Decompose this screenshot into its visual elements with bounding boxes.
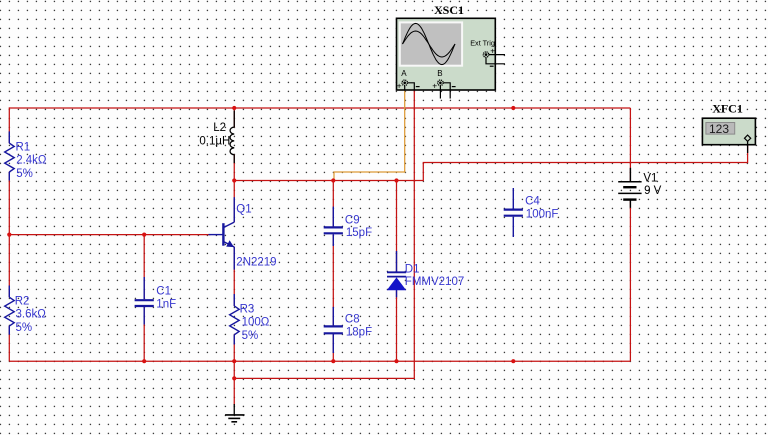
capacitor C9 (324, 207, 343, 246)
svg-text:XFC1: XFC1 (712, 102, 743, 116)
inductor L2 (230, 111, 234, 164)
svg-text:B: B (437, 69, 442, 78)
wire base rail (middle horizontal) (9, 234, 210, 236)
junction bottom rail at C1 (142, 359, 146, 363)
svg-text:C1: C1 (156, 286, 171, 298)
wire C9 C8 vertical (332, 181, 334, 362)
junction bottom rail at R3 (232, 359, 236, 363)
svg-text:+: + (432, 81, 437, 91)
wire L2 / Q1 collector vertical (233, 108, 235, 405)
capacitor C8 (324, 307, 343, 353)
capacitor C1 (135, 277, 154, 325)
transistor Q1 emitter arrow (226, 240, 234, 247)
svg-text:0.1µH: 0.1µH (199, 135, 230, 147)
wire scope A plus (orange) (334, 89, 405, 181)
wire D1 vertical (396, 181, 398, 362)
junction base rail left (7, 233, 11, 237)
svg-text:3.6kΩ: 3.6kΩ (16, 309, 47, 321)
svg-text:100nF: 100nF (526, 209, 559, 221)
svg-text:15pF: 15pF (346, 227, 372, 239)
battery V1 (618, 168, 641, 208)
varactor D1 triangle (387, 277, 406, 290)
wire scope A minus vertical (234, 88, 414, 378)
svg-text:Q1: Q1 (236, 204, 251, 216)
junction branch at L2 bottom (232, 178, 236, 182)
varactor diode D1 (387, 251, 406, 297)
svg-text:C8: C8 (345, 313, 360, 325)
svg-text:XSC1: XSC1 (434, 3, 464, 17)
wire left vertical upper (through R1 pins) (8, 107, 10, 361)
svg-text:2N2219: 2N2219 (236, 257, 276, 269)
svg-text:FMMV2107: FMMV2107 (405, 276, 464, 288)
svg-text:5%: 5% (242, 330, 259, 342)
svg-text:9 V: 9 V (644, 185, 662, 197)
svg-text:D1: D1 (405, 263, 420, 275)
svg-text:2.4kΩ: 2.4kΩ (16, 154, 47, 166)
XFC1 terminal (744, 135, 750, 153)
wire C1 vertical (143, 235, 145, 362)
svg-text:18pF: 18pF (346, 326, 372, 338)
junction rail2 at ground (232, 376, 236, 380)
svg-text:+: + (397, 81, 402, 91)
svg-text:V1: V1 (643, 173, 657, 185)
junction top rail at L2 (232, 106, 236, 110)
junction branch at C9 (331, 178, 335, 182)
ground (225, 404, 244, 422)
resistor R2 (5, 286, 15, 335)
junction bottom rail at C8 (331, 359, 335, 363)
svg-text:R3: R3 (240, 304, 255, 316)
svg-text:100Ω: 100Ω (242, 316, 270, 328)
svg-text:5%: 5% (16, 322, 33, 334)
resistor R3 (230, 294, 240, 345)
svg-text:R1: R1 (16, 142, 31, 154)
svg-text:L2: L2 (213, 122, 226, 134)
svg-text:A: A (401, 69, 407, 78)
junction branch at D1 (394, 178, 398, 182)
junction base rail at C1 (142, 233, 146, 237)
XSC1 terminal Ext Trig (483, 45, 505, 66)
wire battery vertical (629, 108, 631, 361)
junction top rail at C4 (511, 106, 515, 110)
XSC1 terminal B (432, 69, 455, 98)
svg-text:C9: C9 (345, 214, 360, 226)
transistor Q1 (209, 197, 235, 269)
svg-text:1nF: 1nF (156, 299, 176, 311)
junction bottom rail at C4 (511, 359, 515, 363)
svg-text:123: 123 (709, 122, 729, 136)
wire top rail (9, 107, 630, 109)
svg-text:R2: R2 (15, 296, 30, 308)
XSC1 terminal A (397, 69, 420, 90)
junction bottom rail at D1 (394, 359, 398, 363)
oscilloscope XSC1 (397, 3, 496, 90)
svg-text:5%: 5% (16, 168, 33, 180)
wire branch horizontal at y=180 to XFC1 (234, 142, 747, 181)
wire bottom rail (9, 360, 630, 362)
svg-text:+: + (490, 45, 495, 55)
resistor R1 (5, 131, 15, 180)
capacitor C4 (504, 188, 523, 237)
svg-text:C4: C4 (525, 195, 540, 207)
frequency counter XFC1 (702, 102, 755, 145)
